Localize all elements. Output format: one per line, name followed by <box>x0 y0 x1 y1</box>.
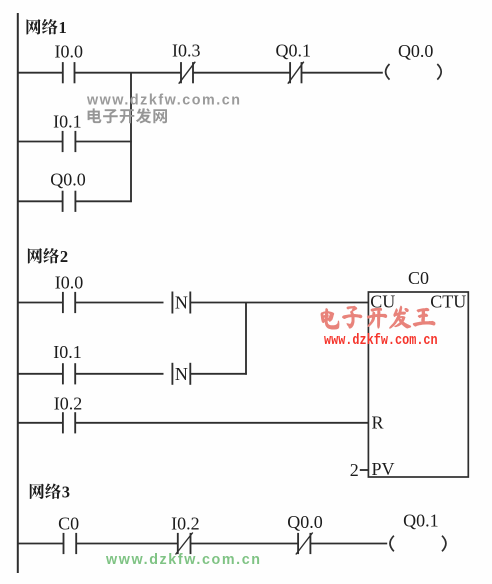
wire N1 rail to I0.0 <box>18 72 63 74</box>
wire N edge contact 1 to counter CU input <box>190 302 368 304</box>
contact I0.3 (NC) <box>179 62 196 84</box>
svg-text:I0.1: I0.1 <box>53 112 82 132</box>
wire N2 rail to I0.0 <box>18 302 63 304</box>
network 2 title <box>28 248 59 264</box>
wire I0.1 to N edge contact 2 <box>75 373 163 375</box>
wire I0.2 to counter R input <box>75 422 368 424</box>
wire N edge contact 2 to node B <box>190 373 247 375</box>
svg-text:N: N <box>175 293 188 313</box>
wire I0.0 to I0.3 <box>75 72 182 74</box>
svg-text:2: 2 <box>60 247 68 266</box>
wire I0.3 to Q0.1 <box>193 72 290 74</box>
contact Q0.0 (contact) <box>63 191 76 212</box>
svg-text:www.dzkfw.com.cn: www.dzkfw.com.cn <box>324 333 438 350</box>
svg-text:CTU: CTU <box>430 292 466 312</box>
wire Q0.0 to coil Q0.1 <box>310 543 387 545</box>
svg-text:I0.2: I0.2 <box>171 514 200 534</box>
counter U1 box C0 CTU <box>368 292 468 477</box>
node A parallel branch <box>130 73 132 202</box>
svg-text:I0.3: I0.3 <box>172 40 201 60</box>
contact C0 (contact) <box>64 533 77 554</box>
wire I0.2 to Q0.0 <box>191 543 299 545</box>
coil Q0.0 <box>386 64 442 80</box>
node B parallel junction <box>245 303 247 375</box>
contact I0.2 (N3) (NC) <box>176 533 193 555</box>
svg-text:C0: C0 <box>408 268 429 288</box>
contact I0.0 (N2) <box>63 292 75 313</box>
svg-text:Q0.1: Q0.1 <box>276 40 312 60</box>
wire I0.0 to N edge contact 1 <box>75 302 163 304</box>
svg-text:I0.1: I0.1 <box>53 342 82 362</box>
network 3 title <box>30 484 61 500</box>
negative edge transition contact 1 <box>172 292 190 314</box>
svg-text:Q0.0: Q0.0 <box>287 512 323 532</box>
watermark dianzikaifawang gray <box>88 108 167 123</box>
left power rail <box>17 13 19 573</box>
svg-text:C0: C0 <box>58 514 79 534</box>
negative edge transition contact 2 <box>172 363 190 385</box>
contact I0.1 <box>63 131 76 152</box>
svg-text:I0.2: I0.2 <box>54 393 83 413</box>
svg-text:N: N <box>175 364 188 384</box>
network 1 title <box>27 19 58 35</box>
wire N3 rail to C0 contact <box>18 543 64 545</box>
contact I0.2 (N2) <box>63 412 75 433</box>
svg-text:I0.0: I0.0 <box>55 41 84 61</box>
contact Q0.0 (N3) (NC) <box>296 533 313 555</box>
svg-text:I0.0: I0.0 <box>55 273 84 293</box>
wire Q0.0 contact to node A <box>75 200 132 202</box>
svg-text:Q0.0: Q0.0 <box>50 170 86 190</box>
wire N1 rail to I0.1 <box>18 141 62 143</box>
coil Q0.1 <box>390 536 446 552</box>
wire N2 rail to I0.2 <box>18 422 63 424</box>
svg-text:Q0.1: Q0.1 <box>403 511 439 531</box>
contact Q0.1 (NC) <box>288 62 304 84</box>
svg-text:3: 3 <box>62 483 70 502</box>
wire N1 rail to Q0.0 contact <box>18 200 62 202</box>
svg-text:Q0.0: Q0.0 <box>398 41 434 61</box>
wire I0.1 to node A <box>75 141 132 143</box>
svg-text:www.dzkfw.com.cn: www.dzkfw.com.cn <box>86 93 242 109</box>
contact I0.0 <box>63 62 75 83</box>
wire Q0.1 to coil Q0.0 <box>302 72 383 74</box>
contact I0.1 (N2) <box>63 363 75 384</box>
wire C0 to I0.2 <box>76 543 178 545</box>
wire N2 rail to I0.1 <box>18 373 63 375</box>
svg-text:R: R <box>372 413 384 433</box>
svg-text:2: 2 <box>350 460 359 480</box>
svg-text:1: 1 <box>59 18 67 37</box>
watermark dianzikaifawang red <box>321 306 435 329</box>
svg-text:www.dzkfw.com.cn: www.dzkfw.com.cn <box>105 552 262 568</box>
svg-text:PV: PV <box>372 459 395 479</box>
